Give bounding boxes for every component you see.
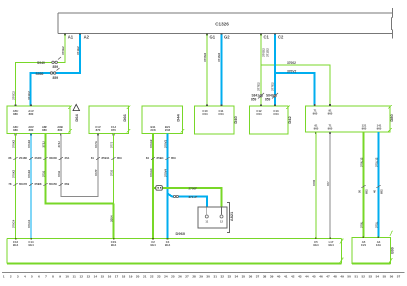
svg-text:7: 7	[45, 274, 47, 278]
component D40 box	[195, 106, 235, 134]
svg-text:D64: D64	[74, 114, 79, 122]
svg-text:9G4: 9G4	[150, 243, 156, 247]
svg-text:880: 880	[13, 112, 18, 116]
svg-text:371G2: 371G2	[149, 139, 153, 148]
wire D64 pin A8F down thick	[46, 134, 114, 204]
svg-text:21: 21	[143, 274, 147, 278]
svg-text:960: 960	[362, 127, 367, 131]
svg-text:1: 1	[3, 274, 5, 278]
svg-text:13: 13	[87, 274, 91, 278]
svg-text:34: 34	[235, 274, 239, 278]
wire G2 cyan	[221, 35, 223, 107]
wire D44 pin B21 down thick	[167, 134, 169, 239]
svg-text:42: 42	[291, 274, 295, 278]
track number ruler	[2, 271, 405, 273]
svg-text:C1: C1	[264, 35, 270, 40]
component pin marks	[15, 104, 380, 135]
svg-text:15: 15	[101, 274, 105, 278]
wire branch to A821 green	[153, 188, 222, 207]
svg-text:377E2: 377E2	[257, 82, 261, 91]
svg-text:370V2: 370V2	[164, 139, 168, 148]
svg-text:38: 38	[263, 274, 267, 278]
splice row 659 connectors	[13, 183, 63, 186]
svg-text:20: 20	[136, 274, 140, 278]
splice S930	[50, 68, 59, 74]
svg-text:880: 880	[42, 128, 47, 132]
svg-text:48: 48	[333, 274, 337, 278]
svg-text:16: 16	[108, 274, 112, 278]
svg-text:G2: G2	[224, 35, 230, 40]
svg-text:41: 41	[284, 274, 288, 278]
continuation ticks	[69, 105, 393, 263]
svg-text:3700: 3700	[312, 179, 316, 186]
svg-text:377P: 377P	[94, 169, 98, 176]
ground rail D960	[7, 238, 342, 240]
svg-text:A2: A2	[84, 35, 90, 40]
wire C2 cyan	[274, 35, 276, 107]
component D64 box	[7, 106, 70, 134]
svg-text:870: 870	[96, 128, 101, 132]
svg-text:960: 960	[377, 127, 382, 131]
svg-text:94: 94	[160, 156, 164, 160]
svg-text:51: 51	[354, 274, 358, 278]
svg-text:55: 55	[383, 274, 387, 278]
svg-text:46: 46	[319, 274, 323, 278]
wire D44 pin B11 down thick	[152, 134, 154, 239]
svg-text:A821: A821	[229, 211, 234, 221]
svg-text:86: 86	[8, 156, 12, 160]
svg-text:9: 9	[59, 274, 61, 278]
svg-text:58: 58	[38, 182, 42, 186]
svg-text:D42: D42	[287, 116, 292, 124]
splice S940	[52, 57, 61, 64]
svg-text:50: 50	[357, 189, 361, 193]
svg-text:18: 18	[122, 274, 126, 278]
svg-text:373J: 373J	[57, 170, 61, 177]
wire D80 pin 61 down	[315, 132, 317, 238]
svg-text:3: 3	[17, 274, 19, 278]
svg-text:669: 669	[65, 182, 70, 186]
svg-text:371X2: 371X2	[27, 169, 31, 178]
svg-text:27: 27	[185, 274, 189, 278]
wire A1 green to splice S940 then to D64 pin	[16, 35, 66, 107]
svg-text:C04: C04	[273, 112, 279, 116]
svg-text:370C4: 370C4	[12, 219, 16, 228]
pin A2	[79, 34, 81, 36]
svg-text:4: 4	[24, 274, 26, 278]
wire branch C2 to D80	[275, 73, 315, 106]
splice S841	[258, 93, 264, 99]
svg-text:D44: D44	[176, 114, 181, 122]
svg-text:960: 960	[313, 111, 318, 115]
svg-text:S930: S930	[36, 72, 44, 76]
svg-text:370L12: 370L12	[360, 157, 364, 167]
svg-text:B99: B99	[391, 247, 395, 254]
svg-text:370V4: 370V4	[164, 168, 168, 177]
wire D66 pin down	[113, 134, 115, 204]
wire C1 green	[260, 35, 262, 107]
svg-text:377G: 377G	[94, 141, 98, 148]
svg-text:40: 40	[372, 189, 376, 193]
pin G1	[206, 34, 208, 36]
warning triangle	[73, 104, 80, 110]
splice row 251 connectors	[13, 157, 169, 160]
svg-text:78: 78	[24, 182, 28, 186]
svg-text:12: 12	[80, 274, 84, 278]
svg-text:859: 859	[171, 156, 176, 160]
wire A2 cyan to splice S930 then to D64 pin	[31, 35, 81, 107]
svg-text:28: 28	[192, 274, 196, 278]
svg-text:682: 682	[380, 189, 384, 194]
component D80 box	[306, 106, 391, 132]
terminal 12	[220, 215, 223, 218]
svg-text:2C8: 2C8	[150, 128, 156, 132]
svg-text:371D2: 371D2	[266, 48, 270, 57]
svg-text:A1: A1	[68, 35, 74, 40]
svg-text:370V2: 370V2	[287, 69, 296, 73]
wire branch C1 to D80	[261, 65, 330, 106]
svg-text:373J: 373J	[42, 141, 46, 148]
wire D80 pin 71 down gray	[329, 132, 331, 238]
svg-text:880: 880	[29, 112, 34, 116]
wire codes upper	[12, 139, 168, 222]
svg-text:C04: C04	[256, 112, 262, 116]
svg-text:C2: C2	[278, 35, 284, 40]
svg-text:25: 25	[171, 274, 175, 278]
svg-text:D960: D960	[176, 231, 186, 236]
wire G1 green	[206, 35, 208, 107]
svg-text:40: 40	[277, 274, 281, 278]
pin A1	[64, 34, 66, 36]
bracket A821	[227, 203, 229, 233]
svg-text:D66: D66	[122, 114, 127, 122]
svg-text:859: 859	[265, 97, 271, 101]
battery box B99	[352, 237, 391, 263]
svg-text:19: 19	[129, 274, 133, 278]
svg-text:373J: 373J	[110, 169, 114, 176]
wire D64 pin A8V down	[30, 134, 32, 239]
svg-text:880: 880	[29, 128, 34, 132]
svg-text:53: 53	[369, 274, 373, 278]
svg-text:371M2: 371M2	[217, 52, 221, 62]
svg-text:371L: 371L	[375, 221, 379, 228]
component D44 box	[142, 106, 183, 134]
svg-text:371G4: 371G4	[149, 168, 153, 177]
svg-text:12A: 12A	[376, 243, 381, 247]
svg-text:859: 859	[53, 65, 59, 69]
svg-text:C04: C04	[202, 112, 208, 116]
svg-text:370E2: 370E2	[61, 46, 65, 55]
pin C1	[260, 34, 262, 36]
svg-text:377E2: 377E2	[271, 82, 275, 91]
svg-text:370X2: 370X2	[12, 139, 16, 148]
svg-text:30: 30	[54, 156, 58, 160]
svg-text:44: 44	[305, 274, 309, 278]
svg-text:C1326: C1326	[215, 22, 229, 27]
svg-text:30: 30	[206, 274, 210, 278]
terminal 11	[205, 215, 208, 218]
wire shield loop D64-D66	[61, 134, 98, 197]
svg-text:859: 859	[117, 156, 122, 160]
svg-text:2: 2	[10, 274, 12, 278]
pin C2	[274, 34, 276, 36]
svg-text:50: 50	[54, 182, 58, 186]
connector C plug	[156, 186, 163, 191]
svg-text:9G4: 9G4	[28, 243, 34, 247]
svg-text:91: 91	[106, 156, 110, 160]
svg-text:78: 78	[8, 182, 12, 186]
svg-text:9G4: 9G4	[165, 243, 171, 247]
svg-text:54: 54	[376, 274, 380, 278]
svg-text:5: 5	[31, 274, 33, 278]
svg-text:43: 43	[298, 274, 302, 278]
svg-text:960: 960	[328, 127, 333, 131]
svg-text:52: 52	[362, 274, 366, 278]
svg-text:370D2: 370D2	[261, 48, 265, 57]
svg-text:G1: G1	[210, 35, 216, 40]
svg-text:373J: 373J	[42, 170, 46, 177]
svg-text:84: 84	[146, 156, 150, 160]
svg-text:859: 859	[251, 97, 257, 101]
svg-text:859: 859	[53, 76, 59, 80]
svg-text:57: 57	[397, 274, 401, 278]
svg-text:10: 10	[65, 274, 69, 278]
svg-text:D80: D80	[389, 114, 394, 122]
svg-text:377J: 377J	[110, 141, 114, 148]
svg-text:29: 29	[199, 274, 203, 278]
svg-text:37: 37	[256, 274, 260, 278]
svg-text:6: 6	[38, 274, 40, 278]
svg-text:9G4: 9G4	[328, 243, 334, 247]
svg-text:370C2: 370C2	[12, 91, 16, 100]
svg-text:870: 870	[111, 128, 116, 132]
svg-text:50: 50	[347, 274, 351, 278]
svg-text:32: 32	[221, 274, 225, 278]
svg-text:26: 26	[178, 274, 182, 278]
svg-text:86: 86	[24, 156, 28, 160]
svg-text:11: 11	[205, 220, 208, 224]
svg-text:371C2: 371C2	[27, 91, 31, 100]
wire D80 pin 121 down	[363, 132, 365, 237]
rail junction pins	[15, 237, 379, 240]
splice S842	[272, 93, 278, 99]
pin G2	[221, 34, 223, 36]
svg-text:C04: C04	[218, 112, 224, 116]
svg-text:23: 23	[157, 274, 161, 278]
svg-text:880: 880	[13, 128, 18, 132]
svg-text:960: 960	[314, 127, 319, 131]
svg-text:682: 682	[365, 189, 369, 194]
svg-text:33: 33	[228, 274, 232, 278]
component D42 box	[250, 106, 289, 134]
svg-text:3S04: 3S04	[110, 215, 114, 222]
component D66 box	[89, 106, 129, 134]
wire D64 pin A6U down	[15, 134, 17, 239]
splice row 682 connectors	[361, 185, 380, 188]
svg-text:880: 880	[58, 128, 63, 132]
svg-text:12: 12	[220, 220, 223, 224]
svg-text:371C4: 371C4	[27, 219, 31, 228]
wire branch to A821 cyan	[168, 194, 207, 207]
svg-text:9G4: 9G4	[13, 243, 19, 247]
svg-text:371E2: 371E2	[76, 46, 80, 55]
svg-text:45: 45	[312, 274, 316, 278]
svg-text:3S1: 3S1	[65, 156, 70, 160]
svg-text:370L: 370L	[360, 221, 364, 228]
svg-text:36: 36	[249, 274, 253, 278]
svg-text:D40: D40	[233, 116, 238, 124]
svg-text:960: 960	[328, 111, 333, 115]
svg-text:11: 11	[73, 274, 77, 278]
svg-text:81: 81	[91, 156, 95, 160]
svg-text:371X2: 371X2	[27, 139, 31, 148]
svg-text:9G4: 9G4	[111, 243, 117, 247]
svg-text:377: 377	[326, 181, 330, 186]
connector C1326 top box	[58, 13, 392, 33]
svg-text:22: 22	[150, 274, 154, 278]
connector plug cyan	[173, 195, 175, 197]
svg-text:2C8: 2C8	[165, 128, 171, 132]
svg-text:8: 8	[52, 274, 54, 278]
svg-text:373J: 373J	[57, 141, 61, 148]
svg-text:56: 56	[390, 274, 394, 278]
svg-text:17: 17	[115, 274, 119, 278]
svg-text:35: 35	[242, 274, 246, 278]
svg-text:9G4: 9G4	[313, 243, 319, 247]
svg-text:37002: 37002	[287, 61, 296, 65]
relay A821 box	[198, 207, 227, 228]
svg-text:S940: S940	[37, 61, 45, 65]
svg-text:39: 39	[270, 274, 274, 278]
svg-text:C21: C21	[361, 243, 367, 247]
svg-text:14: 14	[94, 274, 98, 278]
svg-text:2700F: 2700F	[189, 187, 198, 191]
svg-text:20: 20	[38, 156, 42, 160]
svg-text:47: 47	[326, 274, 330, 278]
svg-text:49: 49	[340, 274, 344, 278]
svg-text:370X2: 370X2	[12, 169, 16, 178]
svg-text:370M2: 370M2	[203, 52, 207, 62]
svg-text:371+P: 371+P	[189, 195, 198, 199]
wire D80 pin 141 down	[378, 132, 380, 237]
svg-text:24: 24	[164, 274, 168, 278]
svg-text:371L12: 371L12	[375, 157, 379, 167]
wire codes mid	[12, 157, 379, 228]
svg-text:31: 31	[213, 274, 217, 278]
